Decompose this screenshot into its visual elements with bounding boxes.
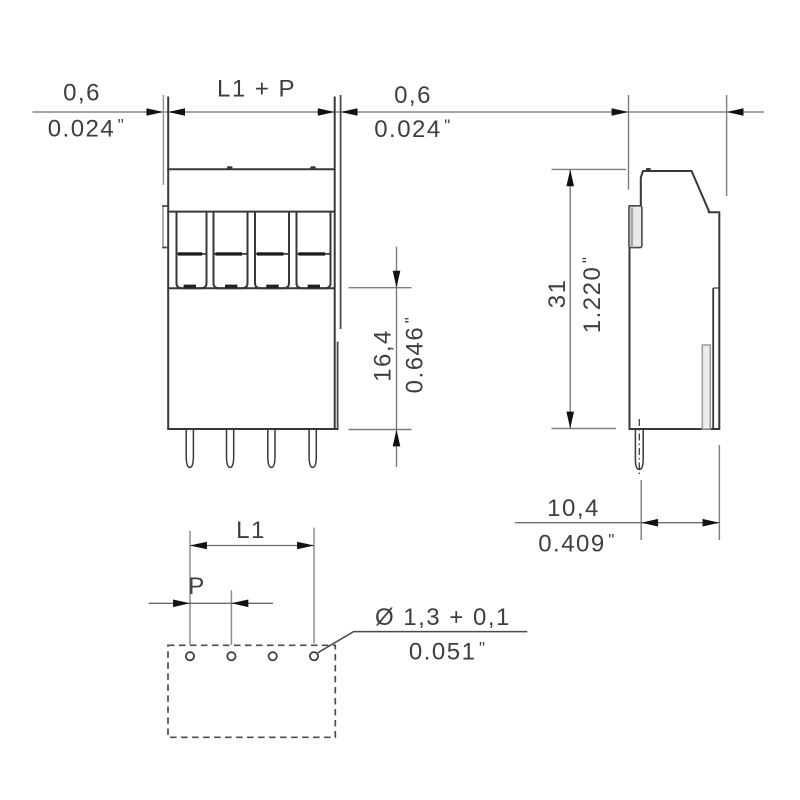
dimension 10,4: dimension line	[515, 522, 719, 524]
svg-text:0,6: 0,6	[63, 80, 101, 107]
arrow at left outer wall pointing right	[147, 108, 164, 116]
front view: bump on shoulder line at pin2	[227, 166, 233, 169]
clamp cell 4	[297, 212, 331, 289]
dimension 10,4: left extension line	[640, 480, 642, 540]
dimension 31: bottom extension line	[552, 428, 617, 430]
bottom view: extension line hole 2	[230, 590, 232, 645]
svg-text:16,4: 16,4	[370, 329, 397, 382]
svg-text:31: 31	[544, 279, 571, 309]
dimension P: arrow pointing left at hole2	[231, 600, 248, 608]
pin 3 front	[268, 430, 275, 467]
dimension 16,4: bottom extension line	[349, 429, 412, 431]
hole 3	[269, 652, 277, 660]
svg-text:0.051": 0.051"	[409, 638, 487, 665]
front view: right lower step edge	[337, 342, 339, 430]
arrow at side view right extension pointing left	[727, 108, 744, 116]
hole 1	[186, 652, 194, 660]
front view: bump on shoulder line at pin4	[310, 166, 316, 169]
front view: right body edge	[334, 97, 336, 430]
side view: body outline	[630, 171, 720, 429]
arrow at right outer wall pointing left	[341, 108, 358, 116]
dimension 16,4: arrow up	[393, 430, 401, 447]
side view: right top extension line	[726, 95, 728, 196]
dimension 31: arrow up	[566, 169, 574, 186]
svg-text:L1 + P: L1 + P	[217, 75, 296, 102]
svg-text:10,4: 10,4	[547, 495, 600, 522]
arrow at right inner wall pointing right	[318, 108, 335, 116]
pin 2 front	[227, 430, 234, 467]
arrow at side view left extension pointing right	[612, 108, 629, 116]
dimension 31: top extension line	[552, 168, 627, 170]
top horizontal dimension line	[33, 111, 765, 113]
hole 2	[227, 652, 235, 660]
clamp cell 1	[177, 212, 207, 289]
front view: cells top line	[167, 211, 335, 213]
dimension 16,4: top extension line	[349, 287, 412, 289]
pin 4 front	[309, 430, 316, 467]
dimension 10,4: arrow left	[641, 519, 658, 527]
svg-text:L1: L1	[236, 517, 266, 544]
dimension 16,4: vertical dimension line	[396, 247, 398, 468]
side view: inner right wall tick	[713, 287, 719, 289]
front view: left body edge	[167, 97, 169, 430]
bottom view: extension line hole 1	[189, 531, 191, 645]
side view: latch button	[629, 206, 642, 248]
bottom view: extension line hole 4	[313, 528, 315, 644]
side view: internal pin strip	[702, 345, 710, 429]
svg-text:0.024": 0.024"	[374, 116, 452, 143]
leader line for hole diameter	[318, 632, 528, 653]
dimension L1: arrow right	[297, 542, 314, 550]
dimension L1: arrow left	[190, 542, 207, 550]
dimension L1: dimension line	[190, 545, 314, 547]
front view: left latch clip	[162, 206, 168, 248]
dimension 16,4: arrow down	[393, 271, 401, 288]
side view: pin center line dash-dot	[638, 419, 640, 476]
pin 1 front	[186, 430, 193, 467]
dimension 10,4: right extension line	[718, 445, 720, 540]
dimension P: dimension line	[149, 602, 273, 604]
dimension 31: arrow down	[566, 412, 574, 429]
svg-text:Ø 1,3 + 0,1: Ø 1,3 + 0,1	[375, 604, 511, 631]
svg-text:P: P	[188, 573, 206, 600]
arrow at left inner wall pointing left	[168, 108, 185, 116]
hole 4	[310, 652, 318, 660]
clamp cell 3	[255, 212, 289, 289]
bottom view: dashed outline rectangle	[168, 645, 335, 737]
dimension 31: vertical dimension line	[569, 169, 571, 428]
side view: left top extension line	[628, 95, 630, 190]
side view: bump on top edge	[646, 168, 651, 171]
clamp cell 2	[214, 212, 248, 289]
svg-text:0,6: 0,6	[394, 82, 432, 109]
front view: left outer wall line	[162, 95, 164, 185]
front view: cells bottom shelf line	[167, 287, 335, 289]
front view: right outer wall line	[340, 95, 342, 329]
dimension 10,4: arrow right	[703, 519, 720, 527]
dimension P: arrow pointing right at hole1	[173, 600, 190, 608]
svg-text:0.409": 0.409"	[538, 531, 616, 558]
front view: top shoulder line	[167, 168, 335, 170]
side view: solder pin	[635, 430, 643, 469]
svg-text:1.220": 1.220"	[579, 256, 606, 334]
svg-text:0.024": 0.024"	[48, 116, 126, 143]
side view: inner right wall line	[712, 288, 714, 429]
svg-text:0.646": 0.646"	[402, 316, 429, 394]
front view: bottom edge	[167, 428, 338, 430]
